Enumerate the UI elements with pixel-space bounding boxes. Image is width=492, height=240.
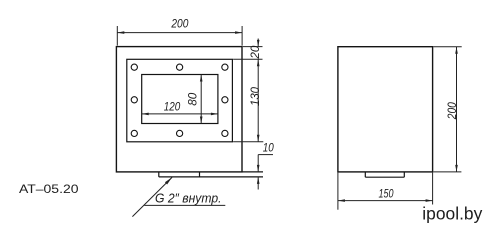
svg-text:10: 10: [263, 141, 274, 155]
svg-text:120: 120: [164, 99, 181, 113]
svg-text:150: 150: [379, 186, 394, 200]
dimension 120 inner width: [142, 113, 218, 116]
side view body outline: [338, 47, 433, 172]
plate bottom edge extension line: [242, 171, 263, 173]
side view neck tab: [365, 172, 404, 177]
hole H3: [222, 64, 228, 70]
svg-text:G 2″ внутр.: G 2″ внутр.: [155, 191, 222, 205]
dimension 10 plan lower right: [257, 155, 273, 190]
neck boss below plate (plan): [159, 172, 263, 177]
hole H4: [131, 97, 137, 103]
hole H1: [131, 64, 137, 70]
dimension 80 inner height: [200, 75, 203, 124]
svg-text:80: 80: [186, 92, 200, 105]
plan view plate outline: [116, 47, 242, 172]
svg-text:200: 200: [171, 16, 189, 30]
plan view bolt-hole square: [127, 59, 233, 142]
dimension 200 side right: [433, 47, 461, 172]
dimension 130 plan right: [257, 59, 260, 142]
svg-text:200: 200: [445, 102, 459, 120]
hole H5: [222, 97, 228, 103]
svg-text:20: 20: [248, 45, 262, 59]
dimension 150 side bottom: [338, 173, 433, 210]
plan view inner opening 120x80: [142, 75, 218, 124]
hole H7: [177, 130, 183, 136]
hole H6: [131, 130, 137, 136]
extension lines right of plan (plate top, bolt square top): [233, 47, 263, 142]
hole H8: [222, 130, 228, 136]
dimension 200 plan top: [117, 26, 242, 46]
svg-text:ipool.by: ipool.by: [422, 204, 482, 224]
svg-text:АТ–05.20: АТ–05.20: [19, 182, 79, 196]
dimension 20 plan right: [257, 39, 260, 47]
hole H2: [177, 64, 183, 70]
leader G 2" внутр.: [132, 177, 225, 216]
svg-text:130: 130: [248, 87, 262, 106]
